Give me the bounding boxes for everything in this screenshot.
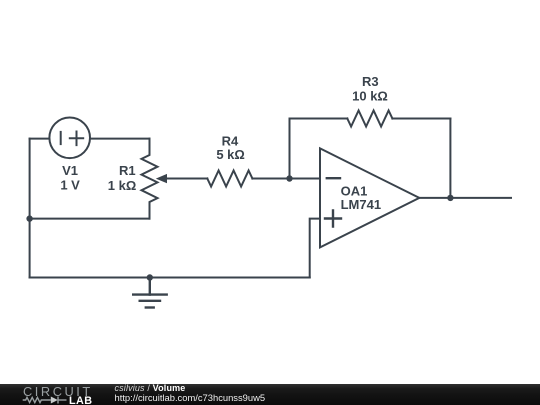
svg-text:LAB: LAB xyxy=(69,396,92,405)
resistor R4 xyxy=(207,171,252,187)
wire: R3 right lead xyxy=(392,118,450,120)
resistor R3 xyxy=(347,111,392,127)
footer text: url xyxy=(115,394,266,402)
svg-text:10 kΩ: 10 kΩ xyxy=(352,88,388,103)
voltage source V1 xyxy=(49,118,90,159)
node: junction ground xyxy=(147,274,153,280)
svg-text:R1: R1 xyxy=(119,163,136,178)
wire: feedback left vertical xyxy=(289,119,291,179)
node: junction R4 / feedback xyxy=(286,175,292,181)
label R4 value xyxy=(216,134,245,163)
svg-text:5 kΩ: 5 kΩ xyxy=(216,147,245,162)
svg-text:V1: V1 xyxy=(62,163,78,178)
label R3 value xyxy=(352,74,388,103)
op-amp plus symbol xyxy=(325,211,341,227)
CircuitLab logo xyxy=(0,384,100,405)
svg-text:1 V: 1 V xyxy=(60,178,80,193)
node: junction output / feedback xyxy=(447,195,453,201)
svg-text:LM741: LM741 xyxy=(341,197,381,212)
node: junction left rail / R1 bottom xyxy=(26,215,32,221)
label R1 value xyxy=(108,163,137,193)
wire: wiper to R4 xyxy=(164,178,207,180)
label OA1 xyxy=(341,184,381,212)
wire: feedback right vertical xyxy=(449,119,451,198)
wire: V1 negative terminal to left rail xyxy=(30,138,50,140)
wire: R4 to op-amp inverting input xyxy=(252,178,320,180)
wire: bottom rail xyxy=(30,277,310,279)
wire: R1 bottom to left rail xyxy=(30,218,150,220)
ground symbol xyxy=(133,278,167,308)
label V1 value xyxy=(60,163,80,193)
footer bar xyxy=(0,384,540,405)
op-amp OA1 triangle xyxy=(320,148,419,247)
wire: R3 left lead xyxy=(290,118,348,120)
potentiometer R1 xyxy=(142,139,158,219)
wire: V1 positive terminal to R1 top xyxy=(90,138,150,140)
footer text: author / title xyxy=(115,384,186,392)
wire: non-inverting input stub xyxy=(310,219,320,278)
logo resistor-diode mark xyxy=(23,398,51,403)
wire: left rail vertical xyxy=(29,139,31,278)
op-amp minus symbol xyxy=(327,177,340,179)
wire: op-amp output xyxy=(419,197,511,199)
svg-text:1 kΩ: 1 kΩ xyxy=(108,178,137,193)
svg-text:R3: R3 xyxy=(362,74,379,89)
R1 wiper arrow xyxy=(156,174,167,183)
